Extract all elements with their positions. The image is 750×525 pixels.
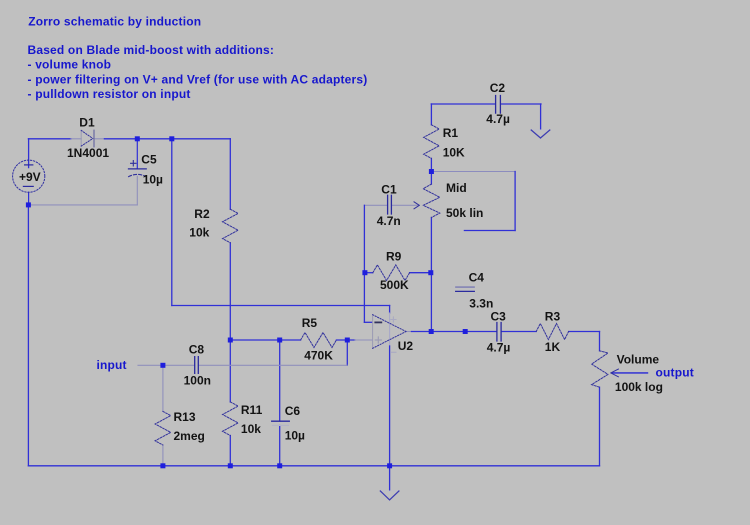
- node junction ground rail U2: [387, 463, 392, 468]
- wire R11 top lead: [229, 340, 231, 402]
- wire diode anode stub: [71, 138, 81, 140]
- Mid wiper arrow: [414, 202, 419, 209]
- wire Volume top lead: [599, 332, 601, 351]
- svg-text:Volume: Volume: [617, 353, 660, 367]
- wire battery to C5 bottom run: [28, 204, 137, 206]
- wire ground1 drop: [540, 104, 542, 130]
- wire input line right of C8: [199, 364, 348, 366]
- ground symbol below U2: [380, 491, 399, 500]
- wire Mid loop bottom: [464, 230, 515, 232]
- wire Vref rail right segment to plus input: [336, 339, 355, 341]
- node junction output at Mid drop: [429, 329, 434, 334]
- wire Mid loop top: [431, 171, 515, 173]
- capacitor C3 plates: [497, 323, 501, 342]
- wire input line left of C8: [138, 364, 195, 366]
- wire R13 bottom lead: [162, 445, 164, 466]
- svg-text:input: input: [97, 358, 127, 372]
- wire U2 power pin down to ground rail: [389, 306, 391, 314]
- svg-text:10k: 10k: [189, 226, 209, 240]
- svg-text:10K: 10K: [443, 146, 465, 160]
- resistor R3 zigzag: [536, 324, 568, 340]
- wire R2 top drop: [229, 139, 231, 209]
- svg-text:Mid: Mid: [446, 181, 467, 195]
- svg-text:C2: C2: [490, 81, 506, 95]
- wire C3 to R3: [501, 331, 536, 333]
- node junction output mid-span: [463, 329, 468, 334]
- wire C5 top lead: [136, 139, 138, 169]
- resistor R11 zigzag: [223, 402, 239, 436]
- svg-text:R5: R5: [302, 316, 318, 330]
- wire top rail right: [104, 138, 230, 140]
- wire R1 bottom lead: [430, 158, 432, 171]
- wire R9 left lead: [365, 272, 373, 274]
- node junction ground rail R11: [228, 463, 233, 468]
- wire U2 ground stub: [389, 466, 391, 491]
- svg-text:U2: U2: [398, 339, 414, 353]
- node junction top rail C5: [135, 136, 140, 141]
- node junction ground rail R13: [160, 463, 165, 468]
- wire U2 output to C3: [406, 331, 412, 333]
- node junction R9 right: [428, 270, 433, 275]
- svg-text:10µ: 10µ: [285, 429, 305, 443]
- svg-text:3.3n: 3.3n: [469, 296, 493, 310]
- svg-text:C5: C5: [141, 153, 157, 167]
- node junction input / R13 top: [160, 363, 165, 368]
- potentiometer Mid zigzag: [423, 184, 440, 217]
- svg-text:R3: R3: [545, 310, 561, 324]
- svg-text:C3: C3: [491, 310, 507, 324]
- wire output line: [612, 372, 648, 374]
- wire C2 rail right: [501, 103, 541, 105]
- node junction battery bottom: [26, 202, 31, 207]
- svg-text:- volume knob: - volume knob: [28, 57, 112, 71]
- wire C6 top lead: [279, 340, 281, 421]
- wire R3 to volume corner: [569, 331, 600, 333]
- wire C6 bottom lead: [279, 426, 281, 466]
- wire Mid loop right vertical: [514, 172, 516, 231]
- wire Mid pot bottom lead to output node: [430, 218, 432, 332]
- svg-text:100n: 100n: [184, 373, 211, 387]
- wire diode cathode stub: [94, 138, 104, 140]
- svg-text:output: output: [656, 365, 694, 379]
- svg-text:1K: 1K: [545, 340, 561, 354]
- svg-text:4.7µ: 4.7µ: [487, 341, 511, 355]
- op-amp U2: [373, 315, 406, 353]
- svg-text:R2: R2: [194, 207, 210, 221]
- svg-text:500K: 500K: [380, 278, 409, 292]
- wire C5 bottom lead: [136, 176, 138, 205]
- svg-text:R9: R9: [386, 250, 402, 264]
- wire V+ horizontal run: [172, 305, 390, 307]
- svg-text:D1: D1: [79, 116, 95, 130]
- wire R11 bottom lead: [229, 436, 231, 466]
- wire bottom ground rail: [28, 465, 599, 467]
- wire C2 rail left: [431, 103, 495, 105]
- wire Mid pot top lead: [430, 172, 432, 185]
- capacitor C8 plates: [195, 357, 199, 374]
- diode D1 body: [81, 130, 94, 147]
- node junction top rail V+ branch: [169, 136, 174, 141]
- wire battery bottom pin: [28, 192, 30, 205]
- svg-text:- power filtering on V+ and Vr: - power filtering on V+ and Vref (for us…: [28, 72, 368, 86]
- node junction Vref at R2/R11: [228, 338, 233, 343]
- wire top rail left: [28, 138, 71, 140]
- svg-text:4.7n: 4.7n: [377, 214, 401, 228]
- resistor R2 zigzag: [223, 209, 239, 243]
- wire R9 right lead: [410, 272, 431, 274]
- svg-text:10k: 10k: [241, 422, 261, 436]
- node junction ground rail C6: [277, 463, 282, 468]
- wire R2 bottom to Vref rail: [229, 243, 231, 340]
- svg-text:R1: R1: [443, 126, 459, 140]
- svg-text:Based on Blade mid-boost with: Based on Blade mid-boost with additions:: [28, 43, 275, 57]
- svg-text:4.7µ: 4.7µ: [486, 112, 510, 126]
- node junction plus input: [345, 338, 350, 343]
- svg-text:R11: R11: [241, 403, 263, 417]
- capacitor C1 plates: [388, 195, 392, 214]
- capacitor C5: [129, 161, 147, 177]
- svg-text:C6: C6: [285, 404, 301, 418]
- svg-text:- pulldown resistor on input: - pulldown resistor on input: [28, 87, 191, 101]
- wire Volume bottom lead: [599, 387, 601, 466]
- wire C1 vertical to inverting input: [363, 205, 365, 322]
- svg-text:Zorro schematic by induction: Zorro schematic by induction: [28, 14, 201, 28]
- resistor R5 zigzag: [301, 333, 337, 348]
- wire C1 left horizontal: [364, 204, 387, 206]
- svg-text:R13: R13: [174, 410, 196, 424]
- resistor R13 zigzag: [155, 411, 171, 445]
- node junction R1 bottom / Mid top: [429, 169, 434, 174]
- node junction R9 left: [362, 270, 367, 275]
- svg-text:50k lin: 50k lin: [446, 206, 483, 220]
- potentiometer Volume zigzag: [592, 351, 608, 387]
- resistor R1 zigzag: [424, 125, 440, 159]
- capacitor C6 plates: [272, 421, 290, 425]
- svg-text:C1: C1: [381, 183, 397, 197]
- resistor R9 zigzag: [373, 265, 410, 281]
- capacitor C2 plates: [496, 96, 501, 114]
- svg-text:2meg: 2meg: [174, 429, 205, 443]
- capacitor C4 plates: [456, 286, 475, 288]
- svg-text:+9V: +9V: [19, 170, 41, 184]
- wire inverting input stub: [364, 321, 372, 323]
- wire R1 top lead: [430, 104, 432, 125]
- wire battery top lead: [28, 139, 30, 168]
- svg-text:C8: C8: [189, 343, 205, 357]
- svg-text:C4: C4: [469, 271, 485, 285]
- ground symbol top right: [531, 130, 550, 138]
- wire plus input drop to input line: [346, 340, 348, 365]
- wire V+ vertical drop: [171, 139, 173, 306]
- battery V1 +9V: [13, 160, 45, 192]
- svg-text:470K: 470K: [304, 348, 333, 362]
- node junction Vref at C6: [277, 338, 282, 343]
- svg-text:10µ: 10µ: [143, 173, 163, 187]
- wire Vref rail left segment: [230, 339, 300, 341]
- svg-text:1N4001: 1N4001: [67, 146, 109, 160]
- Volume wiper arrow: [611, 369, 619, 377]
- wire C1 right to wiper arrow: [392, 204, 419, 206]
- wire R13 top lead: [162, 365, 164, 411]
- wire left ground drop: [27, 205, 29, 466]
- svg-text:100k log: 100k log: [615, 380, 663, 394]
